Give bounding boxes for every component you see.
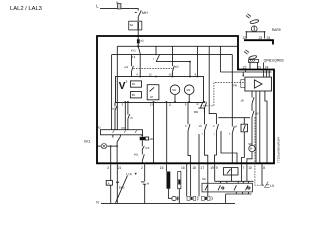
svg-text:ar1: ar1	[124, 65, 128, 69]
svg-text:QRB1/QRB3: QRB1/QRB3	[264, 58, 284, 62]
svg-text:L: L	[96, 3, 99, 8]
svg-text:8: 8	[195, 73, 197, 77]
svg-text:X: X	[185, 125, 187, 128]
svg-text:LAL2 / LAL3: LAL2 / LAL3	[10, 6, 42, 12]
svg-text:3: 3	[107, 166, 109, 170]
svg-text:X1: X1	[98, 125, 102, 129]
svg-text:tX: tX	[130, 116, 133, 120]
svg-text:M2: M2	[187, 88, 191, 92]
svg-text:ar2: ar2	[175, 64, 179, 68]
svg-text:23: 23	[259, 36, 263, 40]
svg-text:7: 7	[243, 166, 245, 170]
svg-text:23: 23	[257, 65, 261, 69]
svg-text:8: 8	[229, 133, 231, 135]
svg-text:RAR9: RAR9	[272, 28, 281, 32]
svg-text:i: i	[153, 57, 154, 61]
svg-text:10: 10	[169, 73, 172, 77]
svg-text:15: 15	[160, 166, 164, 170]
svg-text:19: 19	[210, 166, 214, 170]
svg-text:SA: SA	[130, 23, 134, 27]
svg-text:RV: RV	[132, 83, 136, 86]
svg-text:BV: BV	[132, 94, 136, 97]
svg-text:VI: VI	[235, 125, 238, 128]
svg-text:VII: VII	[199, 125, 202, 128]
svg-text:V: V	[213, 125, 215, 128]
svg-text:LK: LK	[270, 184, 275, 188]
svg-text:9: 9	[185, 103, 187, 107]
svg-text:EK2: EK2	[119, 186, 125, 190]
svg-text:11: 11	[169, 103, 172, 107]
svg-text:br2: br2	[146, 146, 150, 150]
svg-text:1 (3): 1 (3)	[126, 172, 132, 176]
svg-text:4: 4	[136, 73, 138, 77]
svg-text:18: 18	[192, 166, 196, 170]
svg-text:EK1: EK1	[84, 140, 90, 144]
svg-text:12: 12	[149, 73, 152, 77]
svg-text:10: 10	[248, 166, 252, 170]
svg-text:xIII: xIII	[241, 100, 245, 103]
svg-text:bY1: bY1	[131, 48, 136, 52]
svg-text:22: 22	[243, 36, 247, 40]
svg-text:FR: FR	[233, 84, 237, 88]
svg-text:6: 6	[134, 55, 136, 59]
svg-text:1: 1	[214, 133, 216, 135]
svg-text:MH: MH	[142, 11, 148, 15]
svg-text:T7151a06963/0394: T7151a06963/0394	[276, 137, 280, 163]
svg-text:SM: SM	[248, 142, 252, 146]
svg-text:SA: SA	[202, 177, 206, 181]
svg-text:2: 2	[141, 166, 143, 170]
svg-text:a(): a()	[140, 40, 143, 43]
svg-text:24: 24	[265, 65, 269, 69]
svg-text:8: 8	[263, 166, 265, 170]
svg-text:13: 13	[150, 103, 153, 107]
svg-text:XII: XII	[121, 126, 125, 130]
svg-text:SB2: SB2	[194, 111, 199, 114]
svg-text:17: 17	[201, 166, 205, 170]
svg-text:21: 21	[118, 166, 122, 170]
svg-text:22: 22	[243, 65, 247, 69]
svg-text:N: N	[96, 201, 99, 205]
svg-text:AR: AR	[149, 137, 153, 141]
svg-text:bV1: bV1	[134, 152, 139, 156]
svg-text:1: 1	[126, 80, 128, 84]
svg-text:H: H	[147, 182, 149, 186]
svg-text:M1: M1	[172, 88, 176, 92]
svg-text:M: M	[250, 147, 253, 151]
svg-text:3: 3	[122, 103, 124, 107]
svg-text:LP: LP	[150, 95, 153, 99]
svg-text:9: 9	[216, 166, 218, 170]
svg-text:t2: t2	[197, 103, 200, 106]
svg-text:4: 4	[202, 133, 204, 135]
svg-text:xIV: xIV	[255, 113, 259, 116]
svg-text:24: 24	[267, 36, 271, 40]
svg-text:bv1: bv1	[112, 107, 117, 110]
svg-text:A: A	[108, 182, 110, 186]
svg-text:16: 16	[181, 166, 185, 170]
